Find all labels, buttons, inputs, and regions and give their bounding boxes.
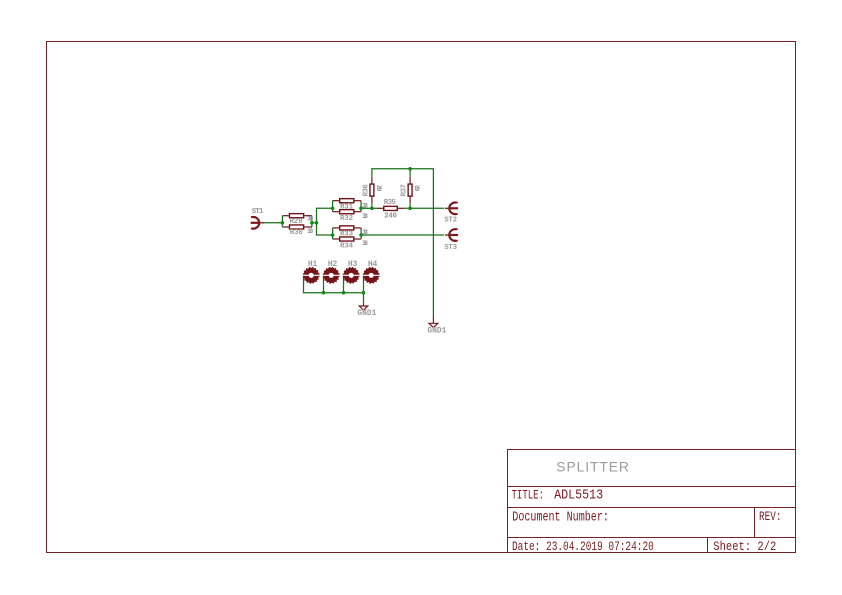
svg-text:H4: H4 bbox=[368, 260, 378, 269]
svg-text:33: 33 bbox=[362, 229, 368, 237]
svg-text:H3: H3 bbox=[348, 260, 358, 269]
svg-text:62: 62 bbox=[377, 185, 385, 191]
svg-text:ADL5513: ADL5513 bbox=[554, 487, 603, 503]
svg-text:R33: R33 bbox=[340, 230, 354, 238]
svg-text:GND1: GND1 bbox=[357, 309, 376, 318]
svg-text:ST2: ST2 bbox=[444, 217, 457, 225]
svg-text:TITLE:: TITLE: bbox=[512, 487, 545, 502]
svg-text:ST1: ST1 bbox=[252, 208, 264, 216]
svg-text:R30: R30 bbox=[290, 229, 304, 237]
svg-text:Date: 23.04.2019 07:24:20: Date: 23.04.2019 07:24:20 bbox=[512, 539, 654, 554]
svg-text:R29: R29 bbox=[290, 218, 303, 226]
svg-text:R36: R36 bbox=[362, 184, 370, 197]
svg-text:H1: H1 bbox=[308, 260, 318, 269]
svg-text:33: 33 bbox=[362, 202, 368, 210]
svg-text:REV:: REV: bbox=[759, 510, 782, 524]
svg-text:Sheet: 2/2: Sheet: 2/2 bbox=[713, 539, 776, 554]
svg-text:R31: R31 bbox=[340, 203, 354, 211]
svg-text:240: 240 bbox=[384, 213, 397, 221]
svg-text:R35: R35 bbox=[384, 199, 397, 207]
svg-text:36: 36 bbox=[307, 216, 313, 224]
svg-text:SPLITTER: SPLITTER bbox=[556, 458, 629, 474]
svg-text:R32: R32 bbox=[340, 215, 353, 223]
svg-text:GND1: GND1 bbox=[427, 327, 446, 336]
svg-text:33: 33 bbox=[362, 240, 368, 248]
svg-text:Document Number:: Document Number: bbox=[512, 509, 609, 525]
svg-text:33: 33 bbox=[362, 213, 368, 221]
svg-text:R34: R34 bbox=[340, 242, 354, 250]
svg-text:ST3: ST3 bbox=[444, 244, 457, 252]
svg-text:H2: H2 bbox=[328, 260, 338, 269]
svg-text:62: 62 bbox=[415, 185, 423, 191]
svg-text:R37: R37 bbox=[401, 184, 409, 196]
svg-text:33: 33 bbox=[307, 228, 313, 236]
